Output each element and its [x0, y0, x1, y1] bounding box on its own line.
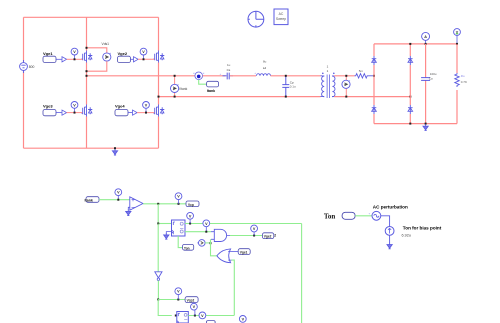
svg-text:Cs: Cs [227, 68, 231, 72]
svg-text:+: + [220, 72, 222, 76]
junction node A [86, 75, 88, 77]
junction secondary top [345, 75, 347, 77]
probe comparator input [115, 189, 122, 200]
wire Lr to transformer [271, 75, 321, 77]
probe and out [251, 225, 258, 235]
capacitor Cp 0.1u [282, 76, 296, 97]
resistor 5m [355, 69, 369, 78]
or gate U4 mirrored [217, 249, 232, 263]
junction delay out [210, 242, 212, 244]
wire rectifier leg1 [373, 44, 375, 124]
svg-text:Vcp: Vcp [188, 203, 194, 207]
ground Ton source [387, 243, 392, 249]
junction FF2 in [175, 315, 177, 317]
probe Vo [454, 29, 461, 44]
transformer T1 1:1 [321, 65, 336, 99]
probe Vge2 [140, 48, 147, 59]
svg-text:Vge1: Vge1 [240, 251, 248, 255]
junction node B [158, 96, 160, 98]
svg-text:Ro: Ro [461, 74, 465, 78]
wire FF2 Q [188, 315, 234, 317]
voltmeter Vds1 [103, 51, 112, 61]
junction leg2 top [409, 43, 411, 45]
ground bottom rail [112, 149, 117, 155]
diode D2 [408, 56, 413, 65]
junction comparator input [117, 199, 119, 201]
junction row3 b [177, 299, 179, 301]
wire left rail upper [23, 17, 25, 61]
svg-text:Ton for bias point: Ton for bias point [403, 226, 442, 231]
probe comp out [175, 193, 182, 204]
probe FF1 Qbar [203, 220, 210, 232]
probe FF2 Q2 [199, 312, 206, 319]
svg-text:AC perturbation: AC perturbation [373, 205, 408, 210]
junction comp out [157, 203, 159, 205]
junction Vds1 bottom [86, 70, 88, 72]
wire to FF1 [158, 223, 171, 225]
svg-text:5m: 5m [359, 69, 364, 73]
junction gate1 [74, 58, 76, 60]
wire secondary bottom [334, 96, 410, 98]
probe FF2 Q [191, 303, 198, 315]
label or input [238, 249, 250, 255]
wire right leg mid [158, 63, 160, 105]
junction gate2 [143, 58, 145, 60]
junction FF2 Q [194, 315, 196, 317]
svg-text:AC: AC [279, 12, 284, 16]
voltmeter secondary [342, 76, 351, 97]
junction Ro top [456, 43, 458, 45]
wire delay node vertical [211, 239, 217, 256]
svg-text:Ton: Ton [324, 212, 336, 220]
wire Itank to comparator [99, 199, 130, 201]
wire Vds1 bottom loop [87, 61, 107, 71]
junction ground [114, 147, 116, 149]
svg-text:Vge2: Vge2 [264, 235, 272, 239]
wire comparator output [143, 203, 186, 205]
wire node B rail [159, 96, 321, 98]
svg-text:0.79: 0.79 [461, 80, 467, 84]
current sensor Itank [193, 72, 204, 80]
svg-text:Vge4: Vge4 [115, 104, 125, 109]
probe Vge1 [71, 48, 78, 59]
clock element [248, 11, 264, 27]
inductor Lr 8u [254, 60, 270, 76]
wire row3 [158, 299, 185, 301]
AC Sweep box [274, 9, 288, 25]
label Vcp [186, 201, 199, 207]
probe bottom right [239, 316, 246, 323]
wire left leg mid [86, 63, 88, 105]
wire Cs to Lr [230, 75, 256, 77]
svg-text:Vge1: Vge1 [43, 51, 53, 56]
wire and out [230, 235, 262, 237]
probe FF1 Q [187, 212, 194, 223]
junction Vtank bottom [174, 96, 176, 98]
dc source V1 800V [20, 60, 35, 73]
junction FF1 in [157, 223, 159, 225]
wire rectifier leg2 [409, 44, 411, 124]
svg-text:1u: 1u [227, 63, 231, 67]
svg-text:Vds1: Vds1 [102, 42, 110, 46]
label Itank input [85, 197, 100, 203]
capacitor Cs 1u [220, 63, 234, 79]
probe row3 [175, 288, 182, 300]
wire or top input to label [232, 251, 239, 253]
junction comp out 2 [178, 203, 180, 205]
svg-text:Vge2: Vge2 [118, 51, 128, 56]
op-amp comparator U1 [130, 197, 143, 210]
flip-flop U5 [177, 312, 189, 323]
svg-text:8u: 8u [263, 60, 267, 64]
buffer gate drive 1 [62, 57, 67, 62]
svg-text:A: A [424, 35, 427, 39]
svg-text:Itank: Itank [85, 199, 93, 203]
mosfet Q4 [153, 105, 164, 117]
svg-text:Itank: Itank [207, 89, 215, 93]
wire Vds1 top loop [87, 48, 107, 53]
svg-text:6.92u: 6.92u [402, 234, 412, 238]
wire buffer to gate Q1 [67, 58, 83, 60]
wire comp out down [157, 204, 159, 224]
wire down to FF2 [158, 300, 172, 316]
ground comparator minus [126, 207, 131, 215]
wire bottom rail [24, 147, 159, 149]
ground output [423, 124, 428, 130]
svg-text:Vcp2: Vcp2 [187, 299, 195, 303]
svg-text:Ld: Ld [263, 66, 267, 70]
wire left leg bottom [86, 117, 88, 149]
flip-flop U2 [172, 220, 186, 236]
wire secondary top [334, 75, 354, 77]
junction gate4 [145, 112, 147, 114]
mosfet Q1 [81, 51, 92, 63]
svg-text:Ton: Ton [184, 246, 190, 250]
svg-text:0.1u: 0.1u [290, 85, 296, 89]
label Vge4 [115, 104, 132, 116]
junction gate3 [74, 112, 76, 114]
svg-text:Sweep: Sweep [276, 17, 286, 21]
svg-text:Vge3: Vge3 [43, 104, 53, 109]
wire rectifier bottom rail [374, 123, 457, 125]
wire resistor to leg1 [368, 75, 374, 77]
buffer gate drive 2 [134, 57, 139, 62]
diode D1 [372, 56, 377, 65]
inverter on vertical [155, 224, 162, 300]
label Itank bubble [199, 80, 219, 94]
junction leg2 bottom [409, 123, 411, 125]
junction Cp bottom [285, 96, 287, 98]
wire top rail [24, 16, 159, 18]
wire FF1 Qbar [185, 231, 211, 233]
dc source Ton bias [385, 226, 442, 238]
junction Cp top [285, 75, 287, 77]
voltmeter Vtank [171, 76, 188, 97]
junction FF1 Q [189, 223, 191, 225]
label Vge3 [43, 104, 62, 116]
junction row3 [157, 299, 159, 301]
svg-text:+: + [369, 212, 371, 216]
probe Vge3 [71, 102, 78, 113]
wire left rail lower [23, 72, 25, 149]
junction Co bottom [425, 123, 427, 125]
wire right leg bottom [158, 117, 160, 149]
probe Vge4 [143, 102, 150, 113]
diode D3 [372, 105, 377, 114]
wire FF1 Q [185, 223, 302, 225]
label Vge1 [43, 51, 62, 63]
wire left leg top [86, 17, 88, 50]
wire buffer to gate Q4 [137, 112, 154, 114]
svg-text:2: 2 [274, 234, 276, 238]
junction and out [253, 235, 255, 237]
label below FF2 [206, 321, 215, 323]
svg-text:Co: Co [429, 77, 433, 81]
junction Vtank top [174, 75, 176, 77]
junction secondary bottom [345, 96, 347, 98]
wire right leg top [158, 17, 160, 50]
label Vge2 [118, 51, 134, 63]
label row3 [185, 297, 198, 303]
wire dc to ground [389, 235, 391, 243]
mosfet Q2 [153, 51, 164, 63]
wire Q loop down [301, 224, 303, 323]
svg-text:+: + [254, 71, 256, 75]
wire or bottom input from below [232, 260, 235, 315]
junction rect leg1 mid [373, 75, 375, 77]
capacitor Co 100u [421, 44, 437, 124]
svg-text:800: 800 [29, 65, 35, 69]
ground FF1 clock [164, 232, 172, 240]
wire sensor to Cs [203, 75, 226, 77]
svg-text:100u: 100u [430, 72, 437, 76]
junction Vds1 top [86, 47, 88, 49]
delay block [197, 240, 210, 247]
wire node A rail [87, 75, 195, 77]
and gate U3 [211, 229, 230, 241]
wire buffer to gate Q2 [138, 58, 154, 60]
ammeter Idc [422, 32, 430, 44]
label Ton under FF1 [178, 236, 194, 250]
mosfet Q3 [81, 105, 92, 117]
resistor Ro 0.79 [455, 44, 467, 124]
junction FF1 Qbar [205, 231, 207, 233]
buffer gate drive 3 [62, 110, 67, 115]
label Ton source [342, 212, 372, 220]
wire rectifier top rail [374, 43, 457, 45]
ac source perturbation [372, 205, 408, 221]
diode D4 [408, 105, 413, 114]
junction rect leg2 mid [409, 96, 411, 98]
wire ac to dc [381, 216, 390, 227]
label Vge2 out [262, 233, 276, 239]
wire buffer to gate Q3 [67, 112, 83, 114]
buffer gate drive 4 [133, 110, 138, 115]
svg-text:Vtank: Vtank [179, 87, 188, 91]
junction Co top [425, 43, 427, 45]
